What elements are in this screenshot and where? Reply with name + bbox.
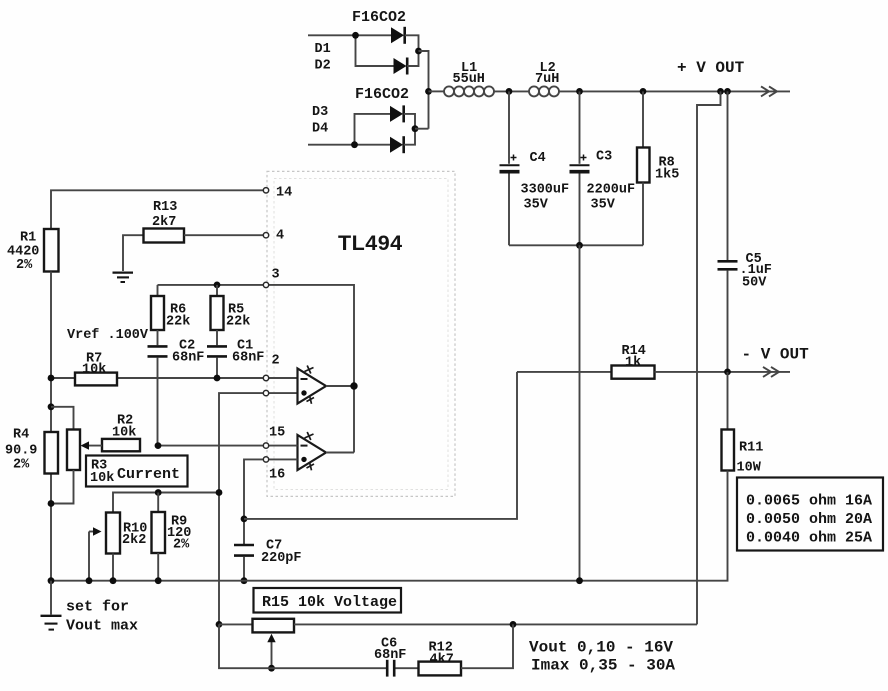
resistor R4 [45,432,59,474]
pin 3 [263,282,268,287]
wire R10 wiper arrow [89,527,102,580]
resistor R13 [144,229,185,243]
wire R10 bottom lead [112,554,114,581]
svg-text:0.0065 ohm 16A: 0.0065 ohm 16A [746,493,872,510]
IC TL494 dashed outline box [267,171,455,496]
node D3/D4 left junction [351,141,358,148]
wire L1 to L2 [494,90,529,92]
svg-text:R15 10k Voltage: R15 10k Voltage [262,594,397,611]
wire R9 top lead [157,493,159,513]
inductor L1 [444,86,494,96]
svg-text:F16CO2: F16CO2 [355,86,409,103]
wire pin 2 row (Vref divider to inverting input) [51,377,298,379]
wire pin 1 row to voltage feedback bus [219,393,298,624]
pin 1 [263,390,268,395]
node R9 top [155,489,162,496]
node ground rail at C3 branch [576,577,583,584]
node ground rail at R1 bus [48,577,55,584]
svg-text:2: 2 [272,354,280,369]
resistor R6 [151,296,164,330]
node C7 top / pin16 branch [241,516,248,523]
node C3 top [576,88,583,95]
svg-text:68nF: 68nF [232,351,264,366]
node filter bottom junction [576,242,583,249]
node R12 branch junction [510,621,517,628]
ground symbol main [41,616,62,630]
resistor R5 [211,296,224,330]
svg-text:2200uF: 2200uF [587,183,636,198]
wire diode bus to +V rail [415,128,429,130]
wire R8 bottom lead [642,183,644,246]
capacitor C4 [500,91,520,245]
resistor R7 [75,373,117,386]
wire D3 cathode to junction [404,114,415,129]
-V output arrow [763,367,779,377]
svg-text:Vref .100V: Vref .100V [67,328,149,343]
node voltage bus at R15 left [216,621,223,628]
svg-text:220pF: 220pF [261,551,302,566]
wire R9 bottom lead [157,553,159,581]
wire -V row left of R14 [517,371,612,373]
svg-text:0.0050 ohm 20A: 0.0050 ohm 20A [746,511,872,528]
wire -V row right of R14 [655,371,791,373]
wire D1 anode input [308,34,391,36]
resistor R9 [152,512,166,553]
node D3/D4 cathode junction [412,125,419,132]
pin 15 [263,443,268,448]
wire R6 bottom to C2 [157,330,159,345]
node R5 top [214,282,221,289]
svg-text:Current: Current [117,466,180,483]
svg-text:Imax 0,35 - 30A: Imax 0,35 - 30A [531,657,675,675]
svg-text:Vout max: Vout max [66,618,138,635]
node C5 top [724,88,731,95]
svg-text:R4: R4 [13,428,29,443]
node R4 bottom junction [48,500,55,507]
box R15 10k Voltage [254,588,402,613]
wire R12 right lead up to sense line [461,624,513,668]
wire +V rail right of L2 [559,90,790,92]
node R8 top [640,88,647,95]
potentiometer R3 [67,430,80,471]
svg-text:68nF: 68nF [374,648,406,663]
resistor R2 [102,439,140,451]
node ground rail at R10 wiper [86,577,93,584]
wire +V sense line down (right feedback) [697,91,721,624]
svg-text:7uH: 7uH [535,72,559,87]
wire R5 bottom to C1 [216,330,218,345]
wire pin 15 row [158,445,298,447]
node amplifier output junction [350,382,357,389]
wire R6 top lead [157,285,159,296]
potentiometer R10 [106,513,120,554]
wire R10 top bus [113,493,219,513]
capacitor C7 [234,545,254,581]
wire pin16 branch to R14 [244,372,517,519]
node R2 right / C2 bottom [155,442,162,449]
svg-text:R13: R13 [153,200,177,215]
resistor R8 [637,148,650,183]
potentiometer R15 [253,619,295,633]
svg-text:10k: 10k [90,471,114,486]
diode D4 [390,136,404,153]
svg-text:68nF: 68nF [172,351,204,366]
pin 4 [263,233,268,238]
wire pin 3 row and feedback to amplifier outputs [158,285,355,453]
capacitor C3 [570,91,590,245]
wire D4 cathode up to junction [404,129,415,145]
wire R15 left lead [219,623,253,625]
svg-text:90.9: 90.9 [5,444,37,459]
wire D1 cathode to junction [405,35,419,51]
svg-text:10k: 10k [82,363,106,378]
svg-text:10W: 10W [737,461,762,476]
svg-text:2k2: 2k2 [122,533,146,548]
svg-text:4: 4 [276,229,284,244]
resistor R14 [612,366,655,379]
resistor R12 [419,662,462,676]
wire D4 anode input [308,144,390,146]
svg-text:+ V OUT: + V OUT [677,59,745,77]
svg-text:50V: 50V [742,276,767,291]
capacitor C6 [387,660,394,677]
node R15 wiper bottom [268,665,275,672]
svg-text:35V: 35V [524,198,549,213]
wire R1 bottom vertical bus [50,272,52,581]
capacitor C2 [148,346,168,445]
wire R13 left lead to ground [123,235,144,271]
wire op-amp2 output [326,452,354,454]
svg-text:35V: 35V [591,198,616,213]
node C1 bottom [214,375,221,382]
svg-text:1k5: 1k5 [655,168,679,183]
pin 16 [263,457,268,462]
node D1/D2 left junction [352,32,359,39]
wire R15 right lead to sense line [294,623,697,625]
node D1/D2 cathode junction [415,48,422,55]
node voltage feedback junction [216,489,223,496]
node C7 bottom on ground rail [241,577,248,584]
node ground rail at R10 bottom [110,577,117,584]
ground at R13 [113,273,134,282]
wire R15 wiper arrow [267,634,275,668]
svg-text:- V OUT: - V OUT [742,346,810,364]
svg-text:2%: 2% [13,458,30,473]
svg-text:16: 16 [269,468,285,483]
node ground rail at R9 bottom [155,577,162,584]
resistor R1 [44,229,59,272]
box R3 10k Current [86,456,188,487]
capacitor C1 [207,346,227,378]
wire pin 16 row [244,459,298,544]
wire R8 top lead [642,91,644,147]
node diode bus / L1 junction [425,88,432,95]
wire D2 branch left vertical [356,35,394,66]
wire R3 bottom link [51,470,74,504]
svg-text:R1: R1 [20,231,36,246]
wire R4/R3 top link [51,407,74,430]
node R4 top junction [48,403,55,410]
pin 2 [263,375,268,380]
svg-text:3: 3 [272,268,280,283]
op-amp U2 error amplifier 2 [298,432,327,470]
svg-text:TL494: TL494 [338,231,403,255]
wire bottom compensation bus [219,624,386,668]
svg-text:14: 14 [276,186,292,201]
wire ground stem [50,581,52,615]
wire C6 to R12 [396,667,419,669]
svg-text:2%: 2% [173,538,190,553]
wire R2 left lead wiper arrow [81,441,103,449]
op-amp U1 error amplifier 1 [298,366,327,404]
svg-text:C3: C3 [596,150,612,165]
wire op-amp1 output [326,385,354,387]
svg-text:22k: 22k [226,315,250,330]
svg-text:1k: 1k [625,356,641,371]
svg-text:15: 15 [269,426,285,441]
svg-text:10k: 10k [112,426,136,441]
svg-text:D1: D1 [315,42,331,57]
node C4 top [506,88,513,95]
+V output arrow [761,86,777,96]
svg-text:C4: C4 [530,151,546,166]
svg-text:F16CO2: F16CO2 [352,9,406,26]
svg-text:set for: set for [66,599,129,616]
wire D2 cathode up to junction [407,51,418,66]
wire R11 top lead [727,372,729,430]
svg-text:R11: R11 [739,441,763,456]
diode D1 [391,27,405,44]
diode D3 [390,105,404,122]
capacitor C5 [718,91,738,372]
svg-text:2%: 2% [16,258,33,273]
box shunt resistance table [737,478,883,551]
svg-text:Vout 0,10 - 16V: Vout 0,10 - 16V [529,639,673,657]
svg-text:2k7: 2k7 [152,215,176,230]
wire R13 to pin 4 [184,234,263,236]
inductor L2 [529,86,559,96]
node pin2 row at R1 bus [48,375,55,382]
pin 14 [263,188,268,193]
node -V output junction [724,369,731,376]
wire +V rail from diodes to L1 [429,90,445,92]
svg-text:3300uF: 3300uF [521,183,570,198]
wire R5 top lead [216,285,218,296]
wire R1 top to pin 14 [51,190,263,229]
svg-text:0.0040 ohm 25A: 0.0040 ohm 25A [746,530,872,547]
wire C3 bottom down to ground rail [579,245,581,580]
svg-text:D2: D2 [315,59,331,74]
wire cathode junction to output bus [419,51,429,129]
wire R11 bottom to ground rail [51,471,728,581]
svg-text:D3: D3 [312,105,328,120]
resistor R11 shunt [722,430,735,471]
svg-text:22k: 22k [166,315,190,330]
diode D2 [394,58,408,75]
svg-text:D4: D4 [312,122,328,137]
svg-text:4k7: 4k7 [430,653,454,668]
node +V sense tap [717,88,724,95]
wire filter bottom bus [509,244,643,246]
wire D3 branch left vertical [355,114,391,145]
svg-text:55uH: 55uH [453,72,485,87]
